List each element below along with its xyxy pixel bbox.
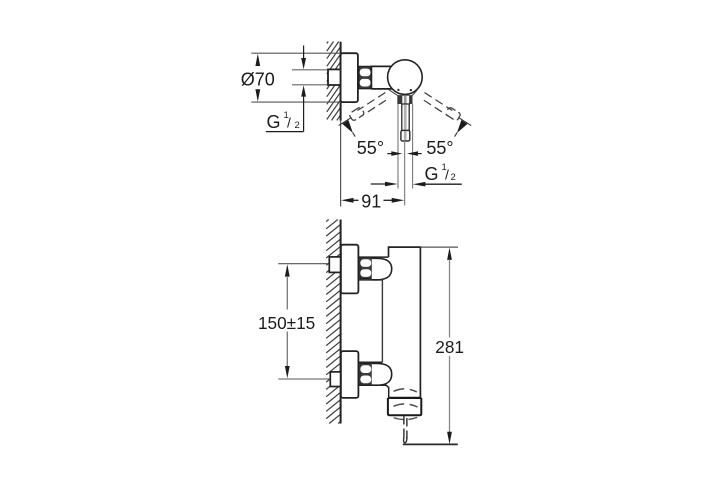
svg-text:281: 281: [435, 337, 464, 357]
dashed lever rotated left 56deg: [339, 93, 390, 137]
Ø70 dimension arrows: [255, 54, 260, 66]
escutcheon upper (front view): [341, 245, 359, 294]
valve body (side view): [371, 66, 392, 89]
union bottom line lower + transition to body: [358, 385, 388, 397]
body/cup joint line: [388, 397, 421, 399]
svg-text:/: /: [445, 167, 449, 183]
91 dimension: [341, 198, 354, 203]
svg-text:2: 2: [451, 172, 456, 183]
body left edge between unions: [381, 280, 383, 362]
body outline (front view): [389, 247, 421, 398]
wall edge line (top view): [340, 42, 342, 121]
wall edge extension line down to 91 dim: [340, 121, 342, 207]
wall hatch (front view): [326, 220, 340, 424]
centerline upper union: [278, 263, 330, 265]
outlet silhouette lines (G1/2 outlet behind lever): [397, 104, 399, 189]
hidden arc below cup: [393, 417, 418, 419]
lever collar: [397, 95, 412, 104]
outlet nipple: [403, 416, 405, 439]
flange escutcheon (side view): [341, 53, 358, 102]
supply pipe in wall (top view): [328, 69, 341, 85]
escutcheon lower (front view): [341, 351, 359, 398]
svg-text:G: G: [425, 164, 439, 184]
mixer body circle (side view): [388, 60, 423, 95]
281 dimension: [420, 246, 458, 248]
svg-text:/: /: [287, 115, 291, 131]
hex nut (side view): [359, 66, 372, 88]
small width dimension arrows (lever width): [387, 153, 392, 155]
svg-text:G: G: [267, 112, 281, 132]
supply pipe upper (front view): [329, 257, 340, 273]
dashed lever rotated right 56deg: [421, 93, 472, 137]
Ø70 extension lines: [251, 52, 340, 54]
G1/2 dimension (top, pipe): [303, 46, 305, 59]
union bottom line upper: [358, 279, 382, 281]
S-union ball upper: [372, 258, 392, 280]
dots on circle: [397, 89, 399, 91]
supply pipe lower (front view): [330, 372, 340, 387]
G1/2 outlet dimension (lower): [371, 183, 385, 185]
union top line lower: [358, 361, 382, 363]
wall hatch (top side view): [327, 42, 341, 121]
hex nut upper (front view): [360, 257, 372, 278]
svg-text:55°: 55°: [426, 138, 453, 158]
S-union ball lower: [372, 363, 392, 385]
wall edge line (front view): [340, 220, 342, 424]
svg-text:55°: 55°: [357, 138, 384, 158]
svg-text:150±15: 150±15: [258, 313, 315, 333]
centerline lower union: [278, 378, 330, 380]
150±15 dimension: [285, 264, 290, 276]
lever stem: [402, 104, 409, 130]
outlet cup: [388, 398, 421, 415]
hidden outlet dashed arc (in body): [392, 389, 417, 392]
lever grip: [401, 130, 410, 141]
svg-text:Ø70: Ø70: [241, 69, 275, 89]
svg-text:2: 2: [295, 120, 300, 131]
silhouette transition lines to collar: [388, 89, 398, 95]
supply pipe extension lines (top view): [292, 69, 329, 71]
svg-text:91: 91: [361, 191, 381, 211]
hex nut lower (front view): [360, 363, 372, 385]
union top line upper: [358, 256, 388, 258]
centerline below lever: [404, 141, 406, 206]
hidden arc in cup: [392, 404, 418, 407]
